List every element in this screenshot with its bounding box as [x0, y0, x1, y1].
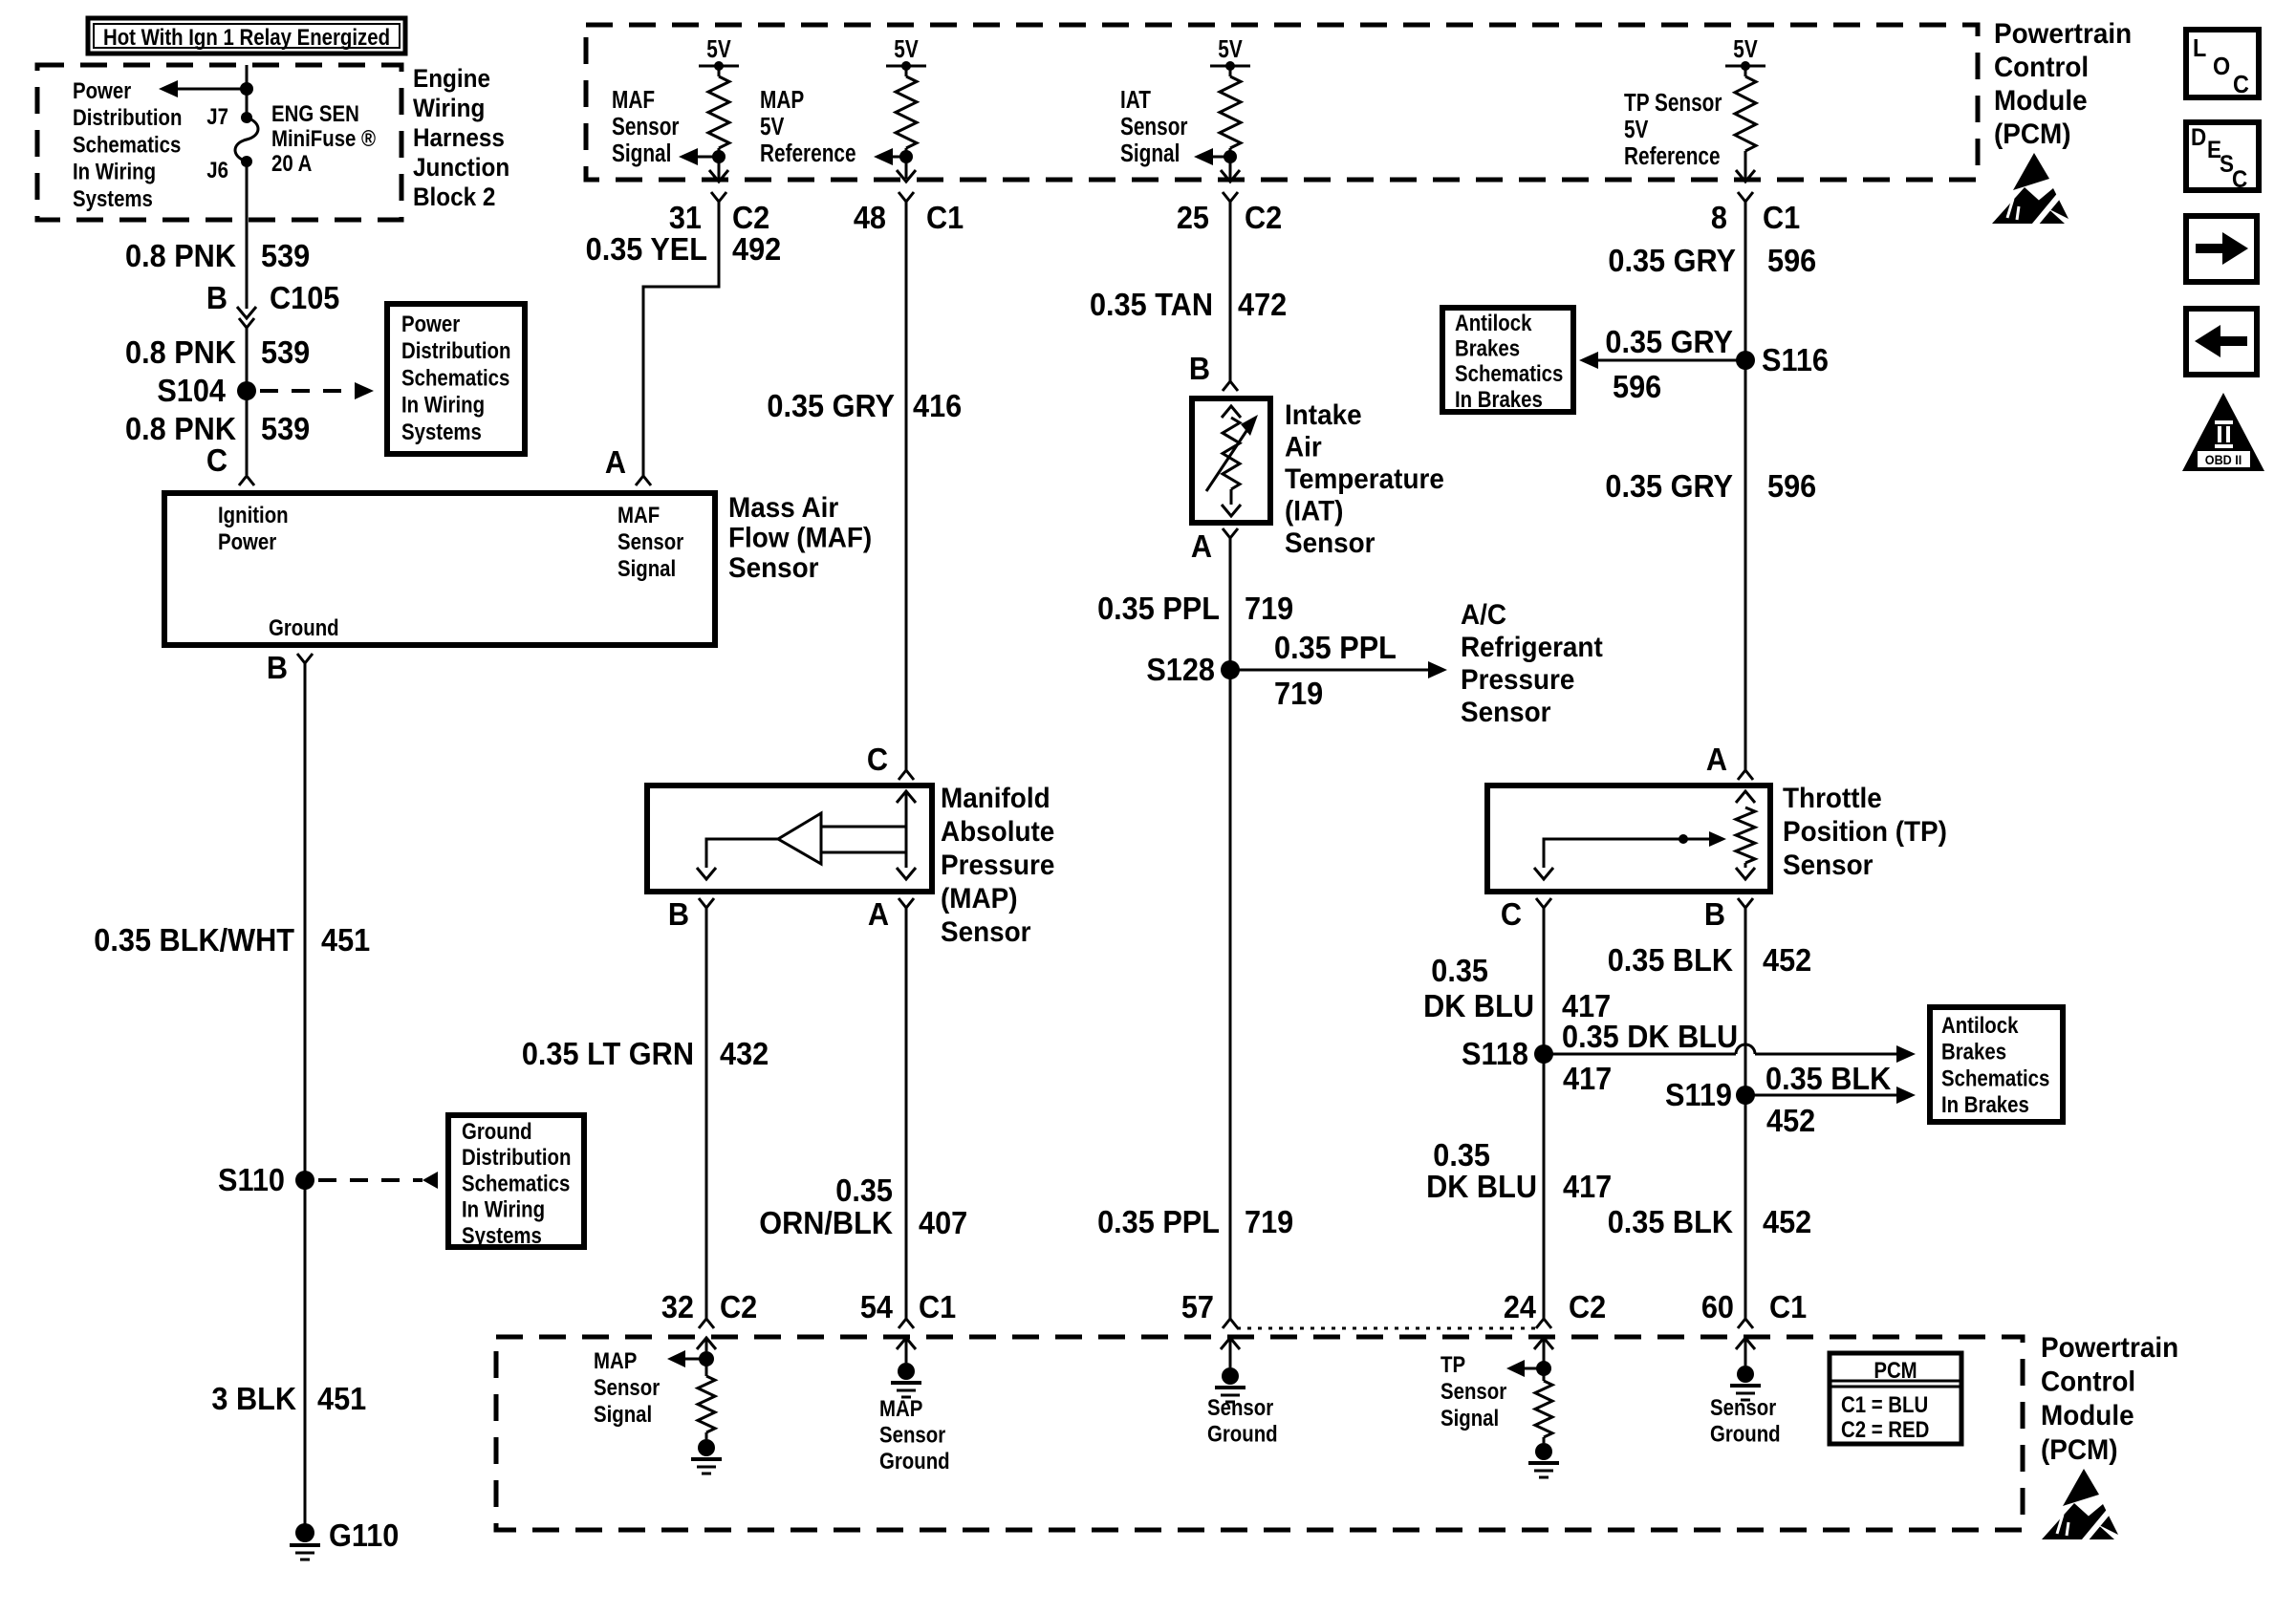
- component box: Intake Air Temperature (IAT) Sensor: [1192, 398, 1270, 523]
- PCM pin 24 input arrow: [1534, 1338, 1553, 1349]
- svg-text:0.35 TAN: 0.35 TAN: [1090, 287, 1213, 322]
- svg-text:31: 31: [669, 200, 702, 235]
- wire: S110 to G110 (3 BLK 451): [304, 1180, 307, 1526]
- wire: fuse output down to C105: [246, 161, 249, 309]
- wire: C105 to S104: [246, 328, 249, 391]
- PCM pin 60 input arrow: [1736, 1338, 1755, 1349]
- fuse F1: ENG SEN MiniFuse 20 A: [235, 118, 258, 161]
- svg-text:0.35 GRY: 0.35 GRY: [1605, 324, 1733, 359]
- splice S110: [295, 1171, 314, 1190]
- svg-text:Control: Control: [2041, 1367, 2135, 1398]
- svg-text:Hot With Ign 1 Relay Energized: Hot With Ign 1 Relay Energized: [103, 24, 390, 50]
- wire: S116 branch to antilock brakes schematics: [1598, 359, 1745, 362]
- svg-text:Antilock: Antilock: [1455, 310, 1532, 335]
- svg-text:0.35 BLK: 0.35 BLK: [1608, 1204, 1733, 1239]
- ground: sensor ground (pin 57): [1222, 1367, 1239, 1385]
- svg-text:Refrigerant: Refrigerant: [1461, 632, 1603, 663]
- svg-text:Sensor: Sensor: [612, 113, 679, 140]
- svg-text:432: 432: [720, 1036, 769, 1071]
- svg-text:5V: 5V: [1624, 116, 1649, 143]
- svg-text:Systems: Systems: [401, 419, 482, 444]
- node: IAT signal junction: [1224, 150, 1237, 163]
- svg-text:Signal: Signal: [612, 140, 671, 167]
- svg-text:0.8 PNK: 0.8 PNK: [125, 334, 236, 370]
- svg-text:A: A: [1706, 742, 1727, 777]
- ground: TP signal input: [1543, 1437, 1546, 1443]
- svg-text:Pressure: Pressure: [941, 850, 1054, 881]
- svg-text:Distribution: Distribution: [401, 338, 510, 364]
- wire: resistor to PCM boundary: [905, 148, 908, 179]
- wire: IAT pin A to PCM 57 (0.35 PPL 719): [1229, 538, 1232, 1319]
- wire: branch to MAF Sensor Signal label: [698, 156, 719, 159]
- svg-text:Systems: Systems: [462, 1222, 542, 1248]
- amplifier symbol (MAP): [778, 813, 821, 864]
- connector fork at IAT pin A: [1223, 528, 1238, 538]
- svg-text:Sensor: Sensor: [1120, 113, 1187, 140]
- svg-text:452: 452: [1763, 942, 1811, 978]
- wire: TP pin C to PCM 24 (0.35 DK BLU 417): [1543, 908, 1546, 1319]
- svg-text:0.35 BLK: 0.35 BLK: [1608, 942, 1733, 978]
- ground G110: [295, 1523, 314, 1542]
- svg-text:Position (TP): Position (TP): [1783, 816, 1947, 848]
- svg-text:Control: Control: [1994, 52, 2089, 83]
- splice S119: [1736, 1086, 1755, 1105]
- connector fork at PCM pin 54: [899, 1319, 914, 1328]
- connector fork at MAF pin A: [636, 476, 651, 485]
- svg-text:DK BLU: DK BLU: [1426, 1169, 1537, 1204]
- svg-text:IAT: IAT: [1120, 86, 1151, 114]
- svg-text:Intake: Intake: [1285, 399, 1362, 431]
- svg-text:B: B: [1189, 351, 1210, 386]
- svg-text:A/C: A/C: [1461, 599, 1506, 631]
- svg-text:Sensor: Sensor: [1461, 697, 1551, 728]
- wire: branch to power distribution: [178, 88, 247, 91]
- node: MAP sensor signal junction (pin 32): [699, 1351, 714, 1367]
- svg-text:C1: C1: [919, 1289, 956, 1324]
- wire: PCM 31 to MAF pin A (0.35 YEL 492): [643, 202, 719, 476]
- MAP internal wiper to pin B: [706, 839, 778, 868]
- svg-text:OBD II: OBD II: [2205, 452, 2242, 467]
- resistor: MAF signal pull-up: [708, 76, 729, 148]
- svg-text:Pressure: Pressure: [1461, 664, 1574, 696]
- svg-text:Powertrain: Powertrain: [1994, 18, 2132, 50]
- connector: PCM pin 25 boundary: [1221, 170, 1240, 182]
- svg-text:0.8 PNK: 0.8 PNK: [125, 238, 236, 273]
- svg-text:Antilock: Antilock: [1941, 1012, 2019, 1038]
- svg-text:57: 57: [1181, 1289, 1214, 1324]
- PCM pin 32 input arrow: [697, 1338, 716, 1349]
- icon: back arrow box: [2186, 309, 2257, 375]
- svg-text:C105: C105: [270, 280, 339, 315]
- svg-text:S119: S119: [1665, 1077, 1732, 1112]
- svg-text:(IAT): (IAT): [1285, 496, 1343, 527]
- svg-text:0.35 BLK: 0.35 BLK: [1765, 1061, 1891, 1096]
- icon: DESC box: [2186, 122, 2259, 190]
- svg-text:Schematics: Schematics: [401, 365, 509, 391]
- svg-text:TP: TP: [1440, 1351, 1465, 1377]
- svg-text:Harness: Harness: [413, 124, 505, 152]
- MAP internal arrow down to pin A: [897, 868, 916, 879]
- svg-text:0.8 PNK: 0.8 PNK: [125, 411, 236, 446]
- svg-text:Sensor: Sensor: [1207, 1394, 1273, 1420]
- svg-text:452: 452: [1763, 1204, 1811, 1239]
- svg-text:J7: J7: [206, 103, 228, 129]
- svg-text:Power: Power: [218, 528, 277, 554]
- ground: MAP signal input: [705, 1432, 708, 1439]
- svg-text:596: 596: [1613, 369, 1661, 404]
- svg-text:Ignition: Ignition: [218, 502, 289, 527]
- svg-text:In Brakes: In Brakes: [1455, 386, 1543, 412]
- resistor: MAP reference pull-up: [896, 76, 917, 148]
- PCM pin 54 input arrow: [897, 1338, 916, 1349]
- connector: PCM pin 8 boundary: [1736, 170, 1755, 182]
- svg-text:G110: G110: [329, 1517, 399, 1553]
- MAP internal wire pin C: [905, 791, 908, 868]
- svg-text:In Wiring: In Wiring: [73, 159, 156, 184]
- svg-text:451: 451: [321, 922, 370, 958]
- node: branch junction: [240, 82, 253, 96]
- arrow: MAF Sensor Signal: [679, 148, 698, 165]
- dotted connector row line between pins 57 and 24: [1237, 1327, 1537, 1330]
- svg-text:Reference: Reference: [1624, 142, 1721, 170]
- svg-text:Module: Module: [2041, 1400, 2134, 1431]
- connector fork at PCM pin 32: [699, 1319, 714, 1328]
- arrow to power distribution schematics: [159, 80, 178, 97]
- svg-text:C2: C2: [1569, 1289, 1606, 1324]
- svg-text:5V: 5V: [894, 35, 919, 63]
- svg-text:0.35 YEL: 0.35 YEL: [586, 231, 707, 267]
- svg-text:MAF: MAF: [617, 502, 660, 527]
- svg-text:In Brakes: In Brakes: [1941, 1092, 2029, 1118]
- connector fork at MAP pin B: [699, 898, 714, 908]
- svg-text:539: 539: [261, 411, 310, 446]
- svg-text:539: 539: [261, 238, 310, 273]
- svg-text:Ground: Ground: [1710, 1421, 1781, 1447]
- svg-text:Distribution: Distribution: [73, 105, 182, 131]
- wire: branch to MAP 5V Reference label: [893, 156, 906, 159]
- svg-text:C1: C1: [926, 200, 964, 235]
- svg-text:C2: C2: [1245, 200, 1282, 235]
- component box: Mass Air Flow (MAF) Sensor: [164, 493, 715, 645]
- svg-text:MAP: MAP: [879, 1395, 922, 1421]
- dashed box: Engine Wiring Harness Junction Block 2: [37, 65, 401, 220]
- svg-text:Wiring: Wiring: [413, 95, 485, 122]
- dashed box: Powertrain Control Module (PCM) bottom: [496, 1337, 2023, 1530]
- svg-text:5V: 5V: [1733, 35, 1758, 63]
- legend box: PCM C1=BLU C2=RED: [1830, 1353, 1961, 1444]
- svg-text:48: 48: [854, 200, 886, 235]
- wire: MAP pin A to PCM 54 (0.35 ORN/BLK 407): [905, 908, 908, 1319]
- wire: S118 branch to antilock brakes (hops TP ground wire): [1544, 1053, 1736, 1056]
- svg-text:(PCM): (PCM): [1994, 118, 2071, 150]
- svg-text:Sensor: Sensor: [594, 1374, 660, 1400]
- svg-text:TP Sensor: TP Sensor: [1624, 89, 1722, 117]
- connector fork at MAP pin A: [899, 898, 914, 908]
- dashed reference arrow S110 to ground distribution box: [318, 1178, 422, 1182]
- svg-text:Air: Air: [1285, 432, 1322, 463]
- svg-text:(MAP): (MAP): [941, 883, 1018, 915]
- component box: Manifold Absolute Pressure (MAP) Sensor: [647, 785, 932, 892]
- splice S104: [237, 381, 256, 400]
- wire: resistor to PCM boundary: [1229, 148, 1232, 179]
- node: MAF signal junction: [712, 150, 726, 163]
- PCM pin 57 input arrow: [1221, 1338, 1240, 1349]
- svg-text:0.35 PPL: 0.35 PPL: [1274, 630, 1397, 665]
- svg-text:L: L: [2193, 35, 2206, 62]
- splice S128: [1221, 660, 1240, 679]
- svg-text:719: 719: [1245, 591, 1293, 626]
- svg-text:Sensor: Sensor: [1440, 1378, 1506, 1404]
- connector fork at IAT pin B: [1223, 381, 1238, 391]
- svg-text:596: 596: [1767, 243, 1816, 278]
- svg-text:Engine: Engine: [413, 65, 490, 93]
- svg-text:C: C: [206, 442, 227, 478]
- ESD sensitive device symbol (top): [2013, 153, 2049, 190]
- svg-text:A: A: [1191, 528, 1212, 564]
- dashed reference arrow S104 to power distribution box: [260, 389, 357, 393]
- svg-text:0.35: 0.35: [1431, 953, 1488, 988]
- svg-text:C: C: [1501, 896, 1522, 932]
- arrow: MAP 5V Reference: [874, 148, 893, 165]
- arrow: MAP Sensor Signal (inside PCM): [685, 1358, 706, 1361]
- connector fork at TP pin B: [1738, 898, 1753, 908]
- connector fork at PCM pin 57: [1223, 1319, 1238, 1328]
- ESD sensitive device symbol (bottom): [2063, 1469, 2099, 1506]
- svg-text:C2 = RED: C2 = RED: [1841, 1416, 1929, 1442]
- svg-text:20 A: 20 A: [271, 150, 312, 176]
- svg-text:407: 407: [919, 1205, 967, 1240]
- svg-text:8: 8: [1711, 200, 1727, 235]
- splice S118: [1534, 1044, 1553, 1064]
- svg-text:Sensor: Sensor: [728, 552, 819, 584]
- connector fork at TP pin A: [1738, 770, 1753, 780]
- svg-text:Sensor: Sensor: [617, 528, 683, 554]
- svg-text:A: A: [868, 896, 889, 932]
- svg-text:Power: Power: [401, 311, 461, 336]
- connector: PCM pin 31 boundary: [709, 170, 728, 182]
- svg-text:Junction: Junction: [413, 154, 509, 182]
- wire: S128 branch to A/C refrigerant pressure sensor: [1230, 669, 1432, 672]
- svg-text:Brakes: Brakes: [1941, 1039, 2006, 1065]
- svg-text:3 BLK: 3 BLK: [211, 1381, 296, 1416]
- splice S116: [1736, 351, 1755, 370]
- svg-text:0.35 GRY: 0.35 GRY: [1605, 468, 1733, 504]
- svg-text:Ground: Ground: [269, 614, 339, 640]
- svg-text:Schematics: Schematics: [1941, 1065, 2049, 1091]
- svg-text:ENG SEN: ENG SEN: [271, 100, 359, 126]
- svg-text:D: D: [2191, 124, 2206, 151]
- svg-text:O: O: [2213, 54, 2230, 80]
- MAP internal taps to amplifier: [821, 826, 906, 829]
- svg-text:B: B: [267, 650, 288, 685]
- svg-text:0.35 DK BLU: 0.35 DK BLU: [1562, 1019, 1738, 1054]
- svg-text:0.35 PPL: 0.35 PPL: [1097, 591, 1220, 626]
- svg-text:DK BLU: DK BLU: [1423, 988, 1534, 1023]
- wire: branch to IAT Sensor Signal label: [1213, 156, 1230, 159]
- svg-text:C2: C2: [732, 200, 769, 235]
- resistor: IAT signal pull-up: [1220, 76, 1241, 148]
- svg-text:5V: 5V: [760, 113, 785, 140]
- svg-text:0.35 BLK/WHT: 0.35 BLK/WHT: [94, 922, 294, 958]
- svg-text:60: 60: [1701, 1289, 1734, 1324]
- terminal J7: [241, 112, 252, 123]
- ground: MAP sensor ground (pin 54): [898, 1363, 915, 1380]
- resistor: MAP signal input (inside PCM): [705, 1359, 708, 1376]
- svg-text:B: B: [668, 896, 689, 932]
- resistor: TP signal input (inside PCM): [1543, 1351, 1546, 1381]
- svg-text:0.35 GRY: 0.35 GRY: [767, 388, 895, 423]
- wire: S119 branch to antilock brakes: [1745, 1094, 1900, 1097]
- svg-text:451: 451: [317, 1381, 366, 1416]
- svg-text:Ground: Ground: [1207, 1421, 1278, 1447]
- svg-text:Sensor: Sensor: [879, 1422, 945, 1448]
- svg-text:Block 2: Block 2: [413, 183, 495, 211]
- icon: forward arrow box: [2186, 216, 2257, 282]
- svg-text:416: 416: [913, 388, 962, 423]
- svg-text:MAP: MAP: [594, 1347, 637, 1373]
- svg-text:B: B: [206, 280, 227, 315]
- svg-text:Sensor: Sensor: [941, 916, 1031, 948]
- svg-text:Sensor: Sensor: [1285, 527, 1375, 559]
- reference box: Antilock Brakes Schematics In Brakes (lower): [1930, 1007, 2063, 1122]
- wire: resistor to PCM boundary: [718, 148, 721, 179]
- svg-text:32: 32: [661, 1289, 694, 1324]
- svg-text:Sensor: Sensor: [1783, 850, 1874, 881]
- svg-text:417: 417: [1563, 1169, 1612, 1204]
- svg-text:Signal: Signal: [1440, 1405, 1499, 1431]
- svg-text:Manifold: Manifold: [941, 783, 1051, 814]
- potentiometer RT (TP): [1736, 791, 1755, 803]
- reference box: Antilock Brakes Schematics In Brakes (upper): [1442, 308, 1573, 412]
- svg-text:54: 54: [860, 1289, 893, 1324]
- wire: TP pin B to PCM 60 (0.35 BLK 452): [1744, 908, 1747, 1319]
- arrow: IAT Sensor Signal: [1194, 148, 1213, 165]
- wire: resistor to PCM boundary: [1744, 151, 1747, 179]
- svg-text:Ground: Ground: [462, 1118, 532, 1144]
- svg-text:C: C: [2232, 166, 2247, 193]
- connector fork at MAF pin C: [239, 476, 254, 485]
- ground: sensor ground (pin 60): [1737, 1366, 1754, 1383]
- svg-text:Sensor: Sensor: [1710, 1394, 1776, 1420]
- svg-text:PCM: PCM: [1874, 1357, 1917, 1383]
- component box: Throttle Position (TP) Sensor: [1487, 785, 1770, 892]
- svg-text:Flow (MAF): Flow (MAF): [728, 523, 872, 554]
- svg-text:C1 = BLU: C1 = BLU: [1841, 1391, 1928, 1417]
- svg-text:S104: S104: [157, 373, 226, 408]
- arrow: TP Sensor Signal (inside PCM): [1524, 1367, 1544, 1370]
- svg-text:5V: 5V: [1218, 35, 1243, 63]
- svg-text:0.35 GRY: 0.35 GRY: [1608, 243, 1736, 278]
- wire: MAP pin B to PCM 32 (0.35 LT GRN 432): [705, 908, 708, 1319]
- svg-text:Schematics: Schematics: [1455, 361, 1563, 387]
- connector fork at PCM pin 60: [1738, 1319, 1753, 1328]
- svg-text:C1: C1: [1769, 1289, 1807, 1324]
- node: TP sensor signal junction (pin 24): [1536, 1361, 1551, 1376]
- svg-text:Systems: Systems: [73, 185, 153, 211]
- svg-text:In Wiring: In Wiring: [462, 1196, 545, 1222]
- reference box: Ground Distribution Schematics In Wiring Systems: [448, 1115, 584, 1247]
- svg-text:472: 472: [1238, 287, 1287, 322]
- svg-text:5V: 5V: [706, 35, 731, 63]
- svg-text:MAP: MAP: [760, 86, 804, 114]
- svg-text:C1: C1: [1763, 200, 1800, 235]
- svg-text:Distribution: Distribution: [462, 1145, 571, 1171]
- terminal J6: [241, 156, 252, 167]
- svg-text:0.35 LT GRN: 0.35 LT GRN: [522, 1036, 694, 1071]
- svg-text:In Wiring: In Wiring: [401, 392, 485, 418]
- svg-text:Brakes: Brakes: [1455, 335, 1520, 361]
- svg-text:539: 539: [261, 334, 310, 370]
- connector fork at TP pin C: [1536, 898, 1551, 908]
- wire: PCM 48 to MAP pin C (0.35 GRY 416): [905, 202, 908, 770]
- label box: Hot With Ign 1 Relay Energized: [88, 18, 405, 54]
- svg-text:0.35 PPL: 0.35 PPL: [1097, 1204, 1220, 1239]
- svg-text:(PCM): (PCM): [2041, 1434, 2118, 1466]
- resistor: TP reference pull-up: [1735, 76, 1756, 151]
- connector C105: [237, 307, 256, 318]
- svg-text:A: A: [605, 444, 626, 480]
- svg-text:Mass Air: Mass Air: [728, 492, 838, 524]
- svg-text:Throttle: Throttle: [1783, 783, 1882, 814]
- svg-text:719: 719: [1274, 676, 1323, 711]
- TP wiper arm: [1572, 838, 1709, 841]
- svg-text:Signal: Signal: [594, 1401, 652, 1427]
- connector fork at MAP pin C: [899, 770, 914, 780]
- svg-text:0.35: 0.35: [835, 1173, 893, 1208]
- svg-text:ORN/BLK: ORN/BLK: [759, 1205, 893, 1240]
- svg-text:452: 452: [1766, 1103, 1815, 1138]
- wire: PCM 25 to IAT pin B (0.35 TAN 472): [1229, 202, 1232, 381]
- svg-text:Schematics: Schematics: [462, 1171, 570, 1196]
- node: MAP reference junction: [899, 150, 913, 163]
- svg-text:719: 719: [1245, 1204, 1293, 1239]
- svg-text:S110: S110: [218, 1162, 285, 1197]
- wire: PCM 8 to TP pin A (0.35 GRY 596): [1744, 202, 1747, 770]
- svg-text:596: 596: [1767, 468, 1816, 504]
- thermistor RT1 (IAT): [1222, 406, 1241, 418]
- connector fork at PCM pin 24: [1536, 1319, 1551, 1328]
- svg-text:C2: C2: [720, 1289, 757, 1324]
- dashed box: Powertrain Control Module (PCM) top: [586, 25, 1978, 180]
- connector fork at MAF pin B: [297, 654, 313, 663]
- icon: OBD II symbol: [2182, 393, 2264, 471]
- svg-text:Power: Power: [73, 77, 132, 103]
- svg-text:S118: S118: [1462, 1036, 1528, 1071]
- svg-text:MiniFuse ®: MiniFuse ®: [271, 125, 377, 151]
- svg-text:Absolute: Absolute: [941, 816, 1054, 848]
- svg-text:C: C: [2233, 72, 2249, 98]
- svg-text:B: B: [1704, 896, 1725, 932]
- wire: ignition feed into junction block: [246, 65, 249, 118]
- svg-text:Reference: Reference: [760, 140, 856, 167]
- svg-text:S116: S116: [1762, 342, 1829, 377]
- svg-text:C: C: [867, 742, 888, 777]
- svg-text:Signal: Signal: [617, 555, 676, 581]
- svg-text:492: 492: [732, 231, 781, 267]
- svg-text:J6: J6: [206, 157, 228, 183]
- svg-text:417: 417: [1563, 1061, 1612, 1096]
- wire: S104 to MAF pin C: [246, 391, 249, 475]
- svg-text:Temperature: Temperature: [1285, 463, 1444, 495]
- svg-text:MAF: MAF: [612, 86, 655, 114]
- svg-text:24: 24: [1504, 1289, 1536, 1324]
- svg-text:Module: Module: [1994, 85, 2088, 117]
- wire: MAF pin B to S110 (0.35 BLK/WHT 451): [304, 663, 307, 1180]
- svg-text:Signal: Signal: [1120, 140, 1180, 167]
- connector: PCM pin 48 boundary: [897, 170, 916, 182]
- svg-text:Powertrain: Powertrain: [2041, 1332, 2178, 1364]
- svg-text:S128: S128: [1146, 652, 1215, 687]
